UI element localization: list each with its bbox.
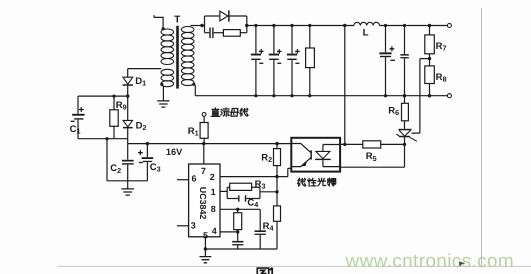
node FB/pin2 junction (275, 175, 278, 178)
transformer primary phase dot (top) (162, 27, 165, 30)
label 线性光耦 (298, 178, 306, 186)
svg-text:R7: R7 (436, 41, 447, 53)
ground (C2/C3) (127, 181, 129, 189)
node snubber left junction (200, 24, 203, 27)
wire primary-top lead-in (154, 15, 163, 27)
svg-text:www.cntronics.com: www.cntronics.com (345, 251, 515, 272)
node D1-D2 junction (126, 94, 129, 97)
node R7/R8 divider junction (428, 57, 431, 60)
node R8 bus junction (428, 94, 431, 97)
wire secondary bottom to bus (194, 85, 196, 96)
wire pin1 comp (220, 190, 227, 192)
terminal output + (447, 24, 451, 28)
resistor R7 (429, 26, 431, 35)
wire pin2 feedback (220, 176, 277, 178)
wire ground joining rail (107, 180, 147, 182)
capacitor Vref bypass (259, 209, 261, 230)
node R6 bus tap (403, 94, 406, 97)
terminal output - (447, 94, 451, 98)
node R7 bus tap (428, 24, 431, 27)
wire ground rail under IC (205, 248, 277, 250)
transformer primary upper winding (161, 29, 174, 65)
wire pin7 supply (203, 144, 205, 164)
diode snubber (205, 15, 220, 17)
svg-text:16V: 16V (166, 147, 183, 157)
wire snubber left branch (204, 16, 206, 33)
optocoupler phototransistor (291, 144, 310, 153)
svg-text:2: 2 (210, 172, 215, 182)
figure caption 图1 (clipped) (257, 268, 268, 274)
node DC bus top (343, 24, 346, 27)
svg-text:1: 1 (211, 187, 216, 197)
mouse cursor (459, 261, 466, 267)
wire pin4 rt/ct (220, 230, 238, 232)
resistor snubber (223, 30, 240, 37)
optocoupler LED (323, 145, 340, 152)
resistor R8 (425, 66, 435, 84)
svg-text:7: 7 (201, 166, 206, 176)
wire DC bus vertical (344, 26, 346, 145)
node pin5/ground-rail junction (204, 247, 207, 250)
wire output top bus (380, 25, 448, 27)
resistor R2 (276, 144, 278, 149)
transformer secondary phase dot (192, 83, 195, 86)
capacitor output C2 (film) (403, 24, 406, 27)
ground (primary) (157, 101, 169, 107)
capacitor CT (timing) (237, 232, 239, 241)
svg-text:T: T (174, 15, 180, 26)
wire pin3 stub (177, 225, 189, 227)
node pin4/RT junction (236, 230, 239, 233)
wire secondary top bus (247, 25, 354, 27)
resistor R6 (404, 96, 406, 104)
wire TL431 ref to divider (412, 59, 420, 134)
resistor R4 (274, 206, 281, 221)
node RT tap (236, 208, 239, 211)
wire C1/R9 top rail (78, 95, 128, 97)
diode D2 (127, 96, 129, 120)
shunt regulator TL431 (399, 129, 412, 131)
wire C1/R9 bottom rail (78, 138, 128, 140)
svg-text:3: 3 (191, 220, 196, 230)
wire ground drop left (106, 139, 108, 181)
node C3 tap (146, 142, 149, 145)
capacitor C1 (77, 96, 79, 114)
label DC bus 直流母线 (211, 108, 219, 116)
page divider vertical line (481, 8, 483, 268)
resistor R3 (227, 186, 230, 188)
wire pin6 stub (177, 179, 189, 181)
wire FB to optocoupler (277, 168, 291, 176)
wire comp network to FB (260, 191, 277, 193)
resistor RT (timing) (237, 209, 239, 212)
transformer T core (176, 26, 179, 89)
transformer primary phase dot (bottom) (160, 83, 163, 86)
svg-text:8: 8 (211, 204, 216, 214)
svg-text:D1: D1 (135, 76, 146, 88)
svg-text:R1: R1 (188, 126, 199, 138)
wire pin8 vref (220, 208, 260, 210)
node FB/R3C4 junction (275, 190, 278, 193)
wire R3/C4 left node (226, 187, 228, 198)
wire opto cathode return (340, 144, 405, 167)
resistor bleeder (bus) (308, 24, 311, 27)
svg-text:R8: R8 (436, 72, 447, 84)
svg-text:C2: C2 (110, 163, 121, 175)
svg-text:UC3842: UC3842 (198, 187, 208, 220)
capacitor C2 (122, 160, 134, 162)
resistor R9 (113, 96, 115, 110)
svg-text:R6: R6 (388, 105, 399, 117)
svg-text:D2: D2 (136, 121, 147, 133)
svg-text:R2: R2 (261, 153, 272, 165)
svg-text:L: L (363, 27, 369, 38)
svg-text:C3: C3 (150, 162, 161, 174)
wire opto to R5 (340, 143, 363, 145)
node R9 top junction (112, 95, 115, 98)
svg-text:4: 4 (212, 226, 217, 236)
capacitor filter C3a (bus) (290, 24, 293, 27)
node bottom-rail ground tap (105, 137, 108, 140)
node opto/DC-bus junction (343, 143, 346, 146)
wire D2 to C2 (127, 144, 129, 160)
wire 16V rail (128, 143, 292, 145)
node snubber right junction (245, 24, 248, 27)
wire R7/R8 tap (420, 58, 430, 60)
wire pin5 ground lead (204, 237, 206, 257)
capacitor snubber (205, 32, 210, 34)
capacitor output C (polarized) (384, 24, 387, 27)
svg-text:C1: C1 (70, 124, 81, 136)
capacitor C3 (146, 144, 148, 158)
ground (pin 5) (200, 257, 212, 263)
page divider horizontal line (57, 265, 531, 267)
wire secondary bottom bus (195, 95, 447, 97)
inductor L (354, 22, 380, 25)
node R5/TL431 junction (403, 143, 406, 146)
op-amp U1 UC3842 box (189, 164, 220, 237)
wire R3/C4 right node (259, 187, 261, 198)
capacitor C4 (227, 198, 238, 200)
wire snubber right branch (246, 16, 248, 33)
node R2 top tap (275, 142, 278, 145)
resistor R5 (363, 141, 381, 148)
transformer primary lower winding (161, 69, 174, 86)
wire secondary top to snubber (191, 25, 205, 27)
svg-text:R9: R9 (116, 100, 127, 112)
svg-text:6: 6 (192, 174, 197, 184)
wire primary bottom to ground (162, 86, 164, 100)
wire primary tap to D1 (128, 68, 162, 70)
resistor R1 (202, 113, 206, 117)
svg-text:R5: R5 (366, 151, 377, 163)
node R1/pin7 tap (202, 142, 205, 145)
capacitor filter C1a (bus) (254, 24, 257, 27)
diode D1 (127, 69, 129, 78)
optocoupler U2 box 线性光耦 (291, 138, 340, 172)
transformer secondary winding (181, 27, 194, 86)
capacitor filter C2a (bus) (272, 24, 275, 27)
svg-text:C4: C4 (247, 198, 258, 210)
